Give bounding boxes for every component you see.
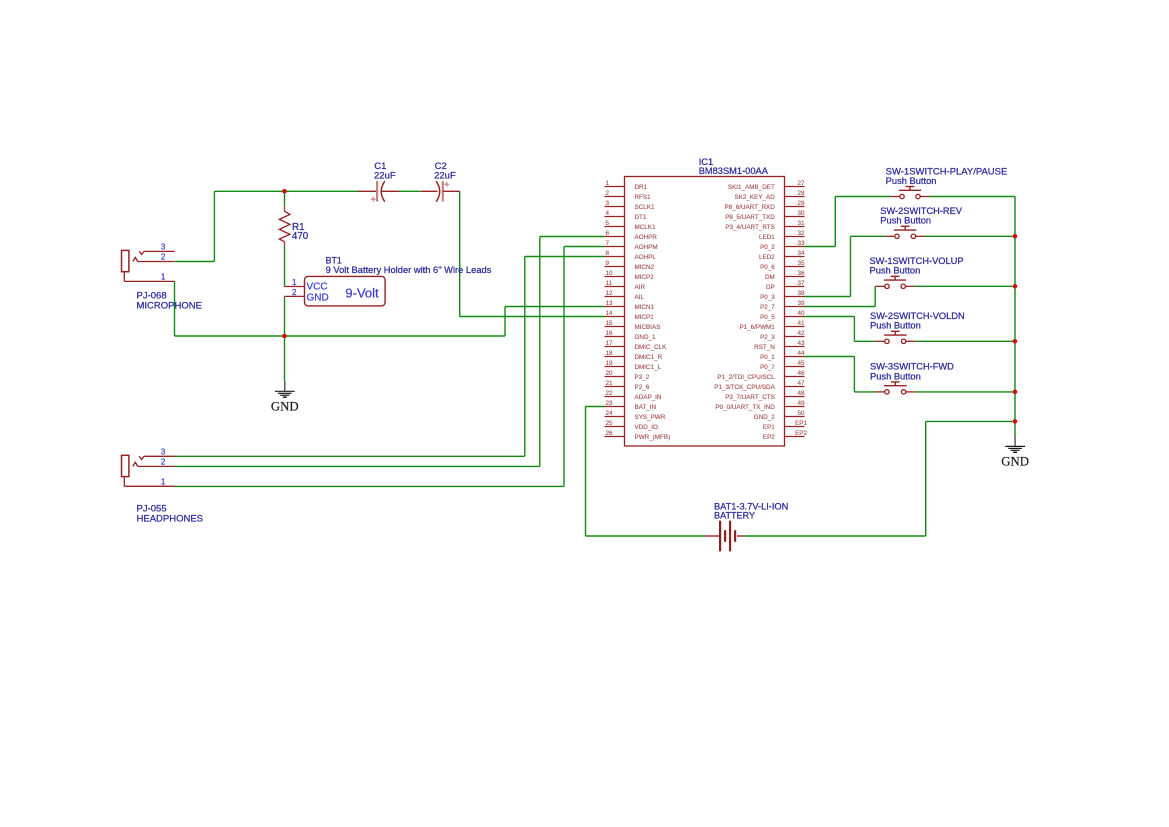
svg-text:DMIC1_R: DMIC1_R: [635, 354, 663, 361]
svg-text:4: 4: [606, 210, 610, 217]
svg-text:21: 21: [606, 380, 614, 387]
svg-text:P0_7: P0_7: [760, 364, 775, 371]
svg-text:MICN1: MICN1: [635, 304, 655, 311]
svg-text:31: 31: [797, 220, 805, 227]
svg-text:22: 22: [606, 390, 614, 397]
svg-text:P0_5: P0_5: [760, 314, 775, 321]
svg-text:35: 35: [797, 260, 805, 267]
svg-text:GND: GND: [1001, 455, 1029, 469]
svg-text:22uF: 22uF: [374, 171, 396, 182]
svg-text:MICP1: MICP1: [635, 314, 655, 321]
svg-text:10: 10: [606, 270, 614, 277]
svg-text:29: 29: [797, 200, 805, 207]
svg-text:15: 15: [606, 320, 614, 327]
svg-text:DM: DM: [765, 274, 775, 281]
svg-text:27: 27: [797, 180, 805, 187]
svg-text:P2_6: P2_6: [635, 384, 650, 391]
svg-text:16: 16: [606, 330, 614, 337]
svg-text:MICN2: MICN2: [635, 264, 655, 271]
svg-text:Push Button: Push Button: [886, 176, 937, 186]
svg-text:DR1: DR1: [635, 184, 648, 191]
svg-text:MICROPHONE: MICROPHONE: [137, 300, 202, 311]
svg-text:28: 28: [797, 190, 805, 197]
svg-text:ADAP_IN: ADAP_IN: [635, 394, 662, 401]
svg-text:32: 32: [797, 230, 805, 237]
svg-text:24: 24: [606, 410, 614, 417]
svg-text:3: 3: [606, 200, 610, 207]
svg-text:BM83SM1-00AA: BM83SM1-00AA: [699, 166, 769, 176]
svg-text:SCLK1: SCLK1: [635, 204, 655, 211]
svg-text:GND_2: GND_2: [754, 414, 775, 421]
svg-text:11: 11: [606, 280, 613, 287]
svg-text:Push Button: Push Button: [870, 266, 921, 276]
svg-text:19: 19: [606, 360, 614, 367]
svg-text:1: 1: [161, 273, 166, 282]
svg-text:AIR: AIR: [635, 284, 646, 291]
svg-text:6: 6: [606, 230, 610, 237]
svg-text:9: 9: [606, 260, 610, 267]
svg-text:P0_6: P0_6: [760, 264, 775, 271]
svg-text:P2_3: P2_3: [760, 334, 775, 341]
svg-text:GND_1: GND_1: [635, 334, 656, 341]
svg-text:P3_7/UART_CTS: P3_7/UART_CTS: [725, 394, 775, 401]
svg-text:22uF: 22uF: [434, 171, 456, 182]
svg-text:SW-1SWITCH-PLAY/PAUSE: SW-1SWITCH-PLAY/PAUSE: [886, 166, 1008, 176]
svg-text:44: 44: [797, 350, 805, 357]
svg-text:P3_2: P3_2: [635, 374, 650, 381]
svg-text:25: 25: [606, 420, 614, 427]
svg-text:1: 1: [161, 478, 166, 487]
svg-text:P0_1: P0_1: [760, 354, 775, 361]
svg-text:8: 8: [606, 250, 610, 257]
svg-text:Push Button: Push Button: [870, 321, 921, 331]
svg-text:SYS_PWR: SYS_PWR: [635, 414, 666, 421]
svg-text:GND: GND: [271, 399, 299, 413]
svg-text:SKI1_AMB_DET: SKI1_AMB_DET: [728, 184, 775, 191]
svg-text:AIL: AIL: [635, 294, 645, 301]
svg-text:SW-3SWITCH-FWD: SW-3SWITCH-FWD: [870, 362, 954, 372]
svg-text:42: 42: [797, 330, 805, 337]
svg-text:SW-2SWITCH-REV: SW-2SWITCH-REV: [880, 206, 962, 216]
svg-text:P1_6/PWM1: P1_6/PWM1: [739, 324, 775, 331]
svg-text:VDD_IO: VDD_IO: [635, 424, 659, 431]
svg-text:HEADPHONES: HEADPHONES: [137, 513, 204, 524]
svg-text:SW-1SWITCH-VOLUP: SW-1SWITCH-VOLUP: [870, 256, 964, 266]
svg-text:49: 49: [797, 400, 805, 407]
svg-text:AOHPM: AOHPM: [635, 244, 658, 251]
svg-text:20: 20: [606, 370, 614, 377]
svg-text:38: 38: [797, 290, 805, 297]
svg-text:45: 45: [797, 360, 805, 367]
svg-text:P0_3: P0_3: [760, 294, 775, 301]
svg-text:30: 30: [797, 210, 805, 217]
svg-text:9-Volt: 9-Volt: [345, 286, 379, 301]
svg-text:3: 3: [161, 243, 166, 252]
svg-text:18: 18: [606, 350, 614, 357]
svg-text:23: 23: [606, 400, 614, 407]
svg-text:EP1: EP1: [763, 424, 775, 431]
svg-text:Push Button: Push Button: [870, 371, 921, 381]
svg-text:33: 33: [797, 240, 805, 247]
svg-text:MICP2: MICP2: [635, 274, 655, 281]
svg-text:BATTERY: BATTERY: [714, 511, 755, 521]
svg-text:GND: GND: [307, 293, 329, 304]
svg-text:BT1: BT1: [326, 255, 342, 265]
svg-text:P1_3/TCK_CPU/SDA: P1_3/TCK_CPU/SDA: [714, 384, 775, 391]
svg-text:MICBIAS: MICBIAS: [635, 324, 661, 331]
svg-text:17: 17: [606, 340, 614, 347]
svg-text:P8_5/UART_TXD: P8_5/UART_TXD: [725, 214, 775, 221]
svg-text:9 Volt Battery Holder with 6": 9 Volt Battery Holder with 6" Wire Leads: [326, 265, 492, 275]
svg-text:P3_4/UART_RTS: P3_4/UART_RTS: [725, 224, 774, 231]
svg-text:AOHPL: AOHPL: [635, 254, 657, 261]
svg-text:46: 46: [797, 370, 805, 377]
svg-text:26: 26: [606, 430, 614, 437]
svg-text:41: 41: [797, 320, 805, 327]
svg-text:RST_N: RST_N: [754, 344, 775, 351]
svg-text:5: 5: [606, 220, 610, 227]
svg-text:2: 2: [606, 190, 610, 197]
svg-text:13: 13: [606, 300, 614, 307]
svg-text:40: 40: [797, 310, 805, 317]
svg-text:Push Button: Push Button: [880, 216, 931, 226]
svg-text:PWR_(MFB): PWR_(MFB): [635, 434, 671, 441]
svg-text:470: 470: [292, 231, 309, 242]
svg-text:DMIC_CLK: DMIC_CLK: [635, 344, 668, 351]
svg-text:DT1: DT1: [635, 214, 647, 221]
svg-text:39: 39: [797, 300, 805, 307]
svg-text:36: 36: [797, 270, 805, 277]
svg-text:RFS1: RFS1: [635, 194, 652, 201]
svg-text:DMIC1_L: DMIC1_L: [635, 364, 662, 371]
svg-text:12: 12: [606, 290, 614, 297]
svg-text:EP1: EP1: [795, 420, 807, 427]
svg-text:7: 7: [606, 240, 610, 247]
svg-text:47: 47: [797, 380, 805, 387]
svg-text:SK2_KEY_AD: SK2_KEY_AD: [735, 194, 776, 201]
svg-text:AOHPR: AOHPR: [635, 234, 658, 241]
svg-text:2: 2: [161, 253, 166, 262]
svg-text:LED1: LED1: [759, 234, 775, 241]
svg-text:48: 48: [797, 390, 805, 397]
svg-text:P8_6/UART_RXD: P8_6/UART_RXD: [725, 204, 776, 211]
svg-text:2: 2: [292, 288, 297, 297]
svg-text:SW-2SWITCH-VOLDN: SW-2SWITCH-VOLDN: [870, 311, 965, 321]
svg-text:LED2: LED2: [759, 254, 775, 261]
svg-text:P1_2/TDI_CPU/SCL: P1_2/TDI_CPU/SCL: [717, 374, 775, 381]
svg-text:DP: DP: [766, 284, 775, 291]
svg-text:34: 34: [797, 250, 805, 257]
svg-text:43: 43: [797, 340, 805, 347]
svg-text:P2_7: P2_7: [760, 304, 775, 311]
svg-text:3: 3: [161, 448, 166, 457]
svg-text:1: 1: [292, 278, 297, 287]
svg-text:EP2: EP2: [763, 434, 775, 441]
svg-text:EP2: EP2: [795, 430, 807, 437]
svg-text:BAT_IN: BAT_IN: [635, 404, 657, 411]
svg-text:P0_2: P0_2: [760, 244, 775, 251]
svg-text:37: 37: [797, 280, 805, 287]
svg-text:2: 2: [161, 458, 166, 467]
svg-text:MCLK1: MCLK1: [635, 224, 656, 231]
svg-text:P0_0/UART_TX_IND: P0_0/UART_TX_IND: [715, 404, 775, 411]
svg-text:50: 50: [797, 410, 805, 417]
svg-text:1: 1: [606, 180, 610, 187]
svg-text:14: 14: [606, 310, 614, 317]
svg-text:VCC: VCC: [307, 281, 328, 292]
